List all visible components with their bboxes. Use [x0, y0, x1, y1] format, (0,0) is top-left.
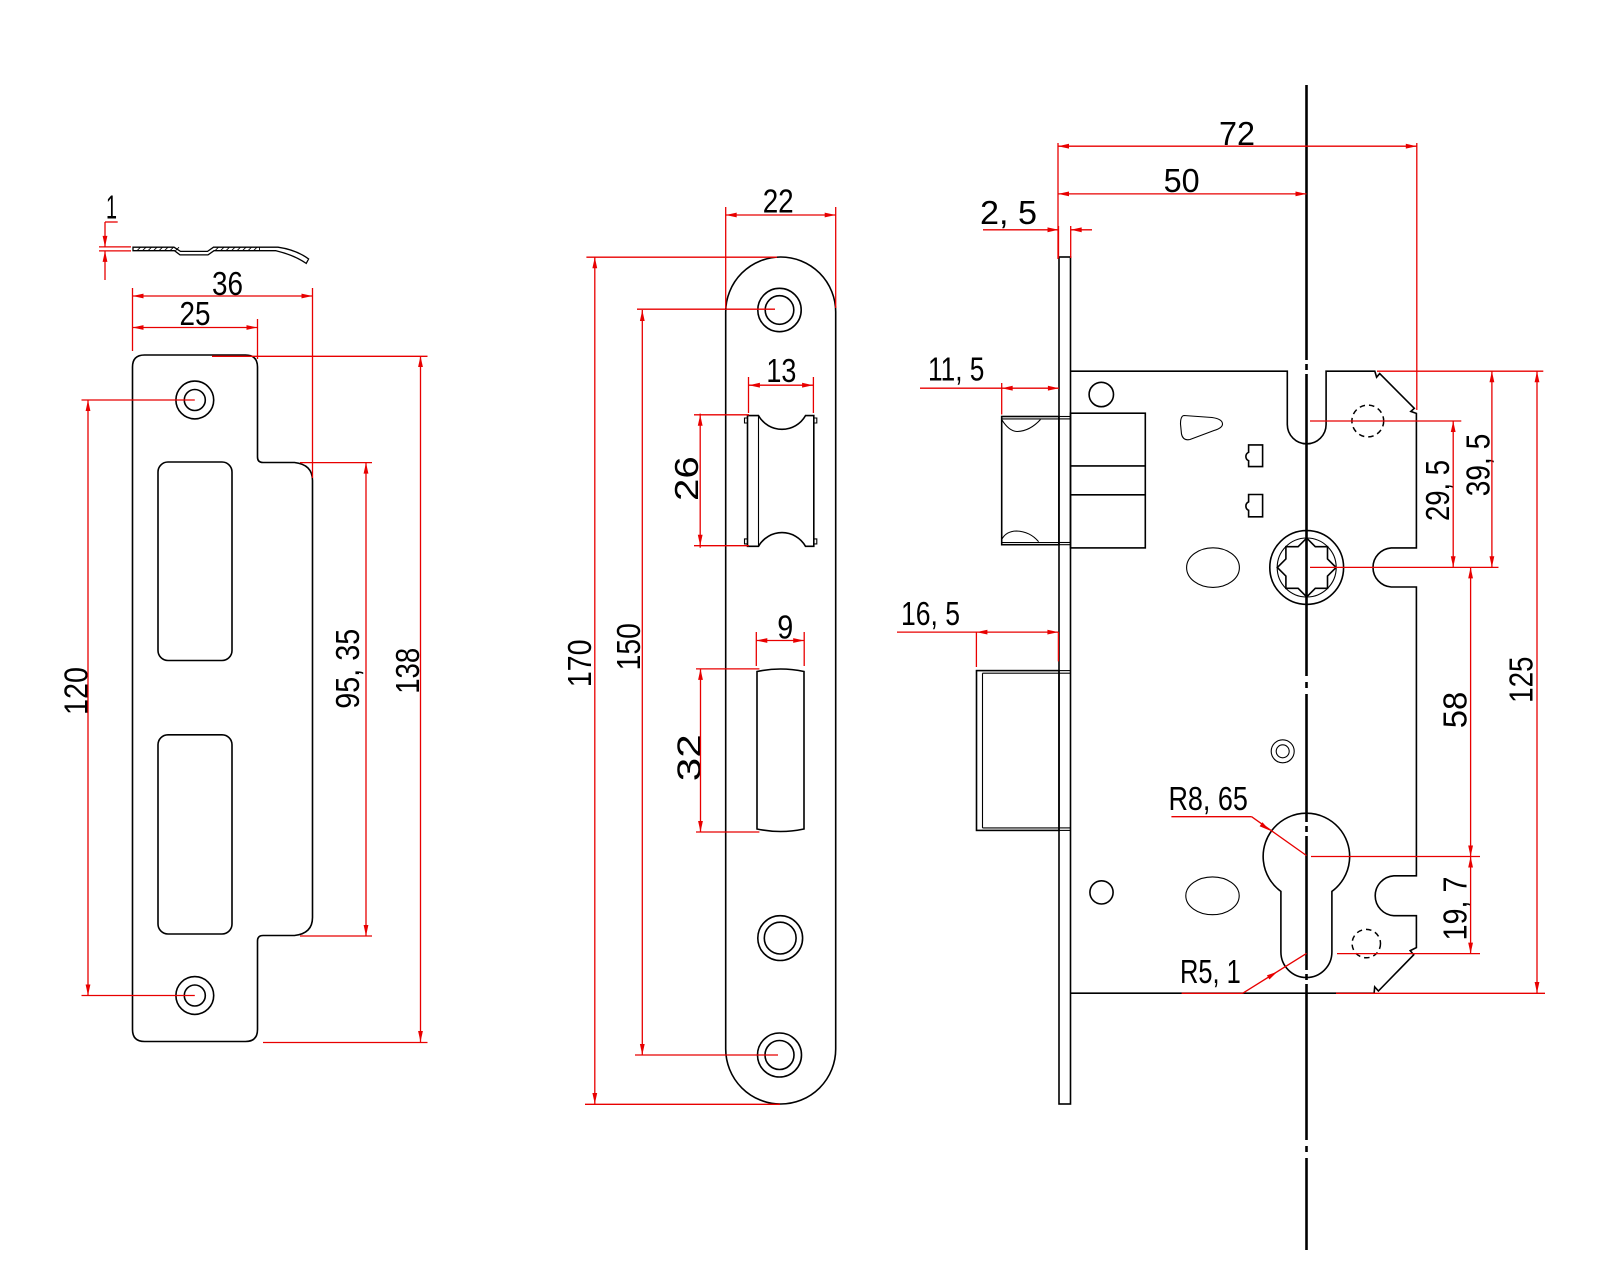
strike plate front outline	[133, 355, 313, 1042]
strike plate top screw hole	[176, 381, 214, 419]
faceplate front outline (stadium)	[726, 257, 836, 1104]
case screw hole top-right (dashed)	[1352, 405, 1384, 437]
svg-text:19, 7: 19, 7	[1436, 877, 1473, 941]
follower square spindle star	[1277, 538, 1336, 597]
latch cutout corner ticks	[745, 418, 748, 423]
svg-text:170: 170	[561, 639, 598, 687]
grub screw circles	[1271, 740, 1294, 763]
vertical centerline	[1305, 85, 1308, 360]
svg-text:22: 22	[763, 183, 794, 220]
faceplate top screw hole	[758, 288, 801, 331]
faceplate latch hole edges	[1059, 416, 1071, 418]
latch bolt side view	[1002, 417, 1059, 545]
svg-text:32: 32	[671, 734, 708, 781]
case oval upper	[1187, 548, 1240, 588]
deadbolt side view	[977, 671, 1060, 831]
strike plate side profile (top-left)	[133, 247, 309, 263]
svg-text:16, 5: 16, 5	[901, 595, 960, 632]
faceplate side view	[1059, 257, 1071, 1104]
euro cylinder hole	[1263, 813, 1350, 977]
case tab shape upper	[1246, 445, 1263, 467]
svg-text:95, 35: 95, 35	[329, 629, 366, 709]
case screw hole bottom-left	[1090, 881, 1113, 904]
svg-text:R8, 65: R8, 65	[1168, 780, 1248, 817]
latch bevel curves	[1002, 420, 1041, 432]
svg-text:125: 125	[1503, 657, 1540, 703]
case internal teardrop shape	[1181, 416, 1223, 440]
case screw hole bottom-right (dashed)	[1352, 929, 1380, 957]
svg-text:39, 5: 39, 5	[1459, 434, 1496, 497]
follower hub circles	[1270, 531, 1344, 605]
svg-text:1: 1	[106, 189, 117, 226]
case screw hole top-left	[1089, 382, 1113, 406]
latch tail block inside case	[1071, 413, 1146, 548]
svg-text:11, 5: 11, 5	[928, 351, 984, 388]
case tab shape lower	[1246, 495, 1263, 517]
strike plate lower cutout	[158, 735, 232, 934]
svg-text:25: 25	[180, 295, 211, 332]
faceplate latch cutout	[748, 416, 814, 547]
svg-text:13: 13	[766, 352, 796, 389]
svg-text:58: 58	[1436, 692, 1473, 729]
svg-text:2, 5: 2, 5	[980, 194, 1037, 231]
svg-text:29, 5: 29, 5	[1419, 460, 1456, 521]
faceplate middle hole	[758, 916, 803, 961]
faceplate bottom screw hole	[758, 1033, 802, 1077]
case oval lower	[1186, 877, 1239, 915]
lock case outline	[1071, 371, 1417, 993]
svg-text:120: 120	[58, 667, 95, 715]
svg-text:150: 150	[610, 623, 647, 670]
faceplate lower cutout (deadbolt)	[757, 669, 804, 832]
side profile hatching	[137, 247, 257, 251]
strike plate bottom screw hole	[176, 977, 214, 1015]
faceplate deadbolt hole edges	[1059, 670, 1071, 672]
strike plate upper cutout	[158, 462, 232, 661]
svg-text:R5, 1: R5, 1	[1180, 953, 1241, 990]
